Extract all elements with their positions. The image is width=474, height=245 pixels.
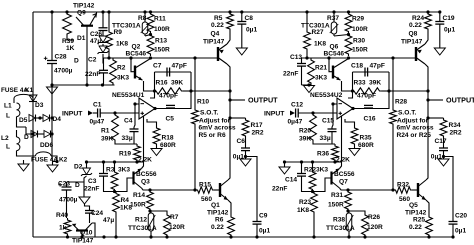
node zobel gnd (right ch) — [442, 155, 445, 158]
svg-text:C3: C3 — [88, 178, 97, 185]
transistor Q9 TIP142 — [76, 14, 97, 26]
node bottom rail R40 — [66, 235, 69, 238]
label Q4 — [211, 31, 220, 38]
label C23 value 4700u — [59, 197, 78, 204]
svg-text:C14: C14 — [285, 177, 297, 184]
node bottom rail Q10 — [80, 235, 83, 238]
svg-text:470pF: 470pF — [357, 93, 376, 100]
wire R24 to Q8 emitter (right ch) — [425, 31, 428, 44]
resistor R14 150R — [147, 190, 154, 211]
label 6mV across — [199, 124, 236, 131]
svg-text:L: L — [6, 144, 10, 151]
wire Q1 emitter to R6 — [228, 200, 231, 215]
svg-text:150R: 150R — [130, 202, 146, 209]
svg-text:S.O.T.: S.O.T. — [398, 110, 416, 117]
thermistor R12 TTC301A — [147, 211, 156, 233]
diode D6 — [44, 131, 51, 138]
label R29 (right ch) — [352, 16, 364, 23]
label C26 — [90, 31, 102, 38]
node op-amp minus — [133, 102, 136, 105]
wire R3 node to Q3 base — [115, 178, 134, 192]
wire Q9 base down to bias net — [86, 26, 88, 85]
svg-text:0µ1: 0µ1 — [444, 27, 455, 34]
label 0u1 of C9 — [259, 228, 270, 235]
input arrow (right ch) — [290, 111, 295, 116]
label R5 — [214, 15, 223, 22]
svg-text:C5: C5 — [166, 116, 175, 123]
label R16 — [156, 80, 168, 87]
wire C6 to ground — [245, 151, 247, 159]
svg-text:4700µ: 4700µ — [59, 197, 78, 204]
wire C4 bottom — [133, 132, 135, 144]
node fuse K2 out — [55, 160, 58, 163]
wire ground to C24 — [85, 204, 90, 211]
svg-text:R37: R37 — [327, 15, 339, 22]
wire C2 top stub — [103, 58, 105, 70]
node lower line R36 (right ch) — [333, 160, 336, 163]
svg-text:R1: R1 — [101, 128, 110, 135]
label R38 (right ch) — [333, 217, 345, 224]
label D below D1 — [74, 58, 79, 65]
svg-text:C9: C9 — [259, 213, 268, 220]
label C5 — [166, 116, 175, 123]
label R14 — [133, 192, 145, 199]
wire bottom -V rail — [33, 236, 452, 238]
label 0u1 of C17 (right ch) — [431, 153, 442, 160]
capacitor C9 0u1 — [253, 222, 262, 225]
svg-text:470pF: 470pF — [159, 93, 178, 100]
svg-text:D2: D2 — [74, 164, 83, 171]
wire C7 top path (right ch) — [353, 71, 390, 73]
wire R23 to bottom rail (right ch) — [313, 214, 315, 237]
label C23 — [58, 181, 70, 188]
svg-text:R19: R19 — [119, 151, 131, 158]
label L2 — [1, 135, 9, 142]
label TIP142 of Q1 — [207, 210, 229, 217]
svg-text:R40: R40 — [56, 212, 68, 219]
label OUTPUT (right ch) — [446, 95, 474, 104]
wire R38 to rail (right ch) — [348, 233, 350, 237]
svg-text:R26: R26 — [368, 214, 380, 221]
resistor R22 3K3 (right ch) — [309, 170, 316, 192]
wire bias vertical upper (right ch) — [392, 58, 394, 108]
wire C5 stub — [170, 108, 172, 109]
svg-text:120R: 120R — [367, 224, 383, 231]
wire R22 node to Q7 base (right ch) — [313, 178, 332, 192]
svg-text:Q4: Q4 — [211, 31, 220, 38]
svg-text:TIP142: TIP142 — [207, 210, 229, 217]
trimpot R10 S.O.T. — [192, 108, 199, 126]
node bias net stub — [85, 83, 88, 86]
svg-text:C15: C15 — [322, 118, 334, 125]
wire fuse K1 left to L1 — [13, 99, 15, 104]
label R19 — [119, 151, 131, 158]
svg-text:R36: R36 — [317, 151, 329, 158]
capacitor C14 22nF (right ch) — [297, 174, 306, 177]
diode D1 zener — [98, 36, 109, 44]
label 680R of R18 — [160, 142, 176, 149]
label 39K of R20 (right ch) — [299, 136, 311, 143]
capacitor C8 0u1 — [237, 22, 246, 25]
wire C17 to ground (right ch) — [443, 151, 445, 159]
wire Q7 emitter up (right ch) — [340, 162, 342, 169]
label 120R of R7 — [169, 224, 185, 231]
label Q5 (right ch) — [409, 202, 418, 209]
label 39K of R33 (right ch) — [369, 80, 381, 87]
resistor R17 2R2 — [242, 118, 249, 138]
label R39 value 1K — [66, 45, 75, 52]
wire C2 bottom — [103, 73, 105, 85]
label 22nF of C3 — [84, 186, 99, 193]
wire feedback left edge — [154, 72, 156, 91]
svg-text:Q8: Q8 — [409, 31, 418, 38]
svg-text:R30: R30 — [353, 38, 365, 45]
wire output rail mid — [229, 91, 231, 137]
svg-text:3K3: 3K3 — [118, 167, 130, 174]
svg-text:D3: D3 — [35, 102, 44, 109]
resistor R21 3K3 (right ch) — [308, 58, 315, 85]
capacitor C13 22nF (right ch) — [297, 64, 306, 67]
ground below R18 — [151, 149, 162, 156]
svg-text:C1: C1 — [93, 102, 102, 109]
node rail R8 — [143, 10, 146, 13]
resistor R31 150R (right ch) — [345, 190, 352, 211]
node feedback right mid — [189, 89, 192, 92]
wire Q6 emitter down (right ch) — [342, 81, 353, 91]
svg-text:D: D — [24, 134, 29, 141]
label 120R of R26 (right ch) — [367, 224, 383, 231]
label Q9 — [77, 10, 86, 17]
resistor R39 1K — [63, 12, 72, 36]
wire to OUTPUT — [230, 99, 245, 101]
label 22nF of C13 (right ch) — [283, 71, 298, 78]
wire R17 to C6 — [245, 138, 247, 148]
svg-text:BC546: BC546 — [126, 51, 147, 58]
label 680R of R35 (right ch) — [358, 142, 374, 149]
svg-text:BC556: BC556 — [136, 171, 157, 178]
label C3 — [88, 178, 97, 185]
resistor R23 1K8 (right ch) — [311, 192, 318, 215]
transistor Q4 TIP147 — [218, 44, 227, 64]
node rail R27 (right ch) — [305, 10, 308, 13]
label D2 — [74, 164, 83, 171]
wire R3 top stub — [114, 162, 116, 170]
svg-text:Q2: Q2 — [132, 44, 141, 51]
transistor Q1 TIP142 — [220, 180, 228, 200]
label C24 value 47u — [103, 217, 114, 224]
wire L2 bottom to fuse K2 — [17, 151, 36, 156]
wire C8 to ground — [241, 24, 243, 48]
wire C23 link to D2 chain — [67, 181, 85, 183]
svg-text:150R: 150R — [328, 202, 344, 209]
label R12 — [135, 217, 147, 224]
svg-text:R4: R4 — [121, 197, 130, 204]
ground below fuse K2 — [47, 165, 58, 172]
label Q8 (right ch) — [409, 31, 418, 38]
label R18 — [162, 135, 174, 142]
capacitor C15 33u (right ch) — [328, 129, 337, 132]
svg-text:R20: R20 — [299, 128, 311, 135]
label R10 — [197, 99, 209, 106]
wire C15 top (right ch) — [331, 127, 333, 129]
wire C16 stub (right ch) — [368, 108, 370, 109]
label C20 (right ch) — [455, 213, 467, 220]
node clamp (right ch) — [307, 83, 310, 86]
svg-text:0.22: 0.22 — [211, 224, 224, 231]
svg-text:100R: 100R — [154, 26, 170, 33]
svg-text:C24: C24 — [91, 210, 103, 217]
svg-text:47pF: 47pF — [172, 63, 187, 70]
transistor Q8 TIP147 (right ch) — [416, 44, 425, 64]
capacitor C3 22nF — [99, 174, 108, 177]
wire left edge vertical — [32, 12, 34, 237]
wire base line to Q4 — [104, 57, 219, 59]
node base line R27 (right ch) — [305, 56, 308, 59]
svg-text:Q10: Q10 — [80, 230, 93, 237]
transistor Q10 TIP147 — [73, 223, 93, 231]
label R1 — [101, 128, 110, 135]
label R31 (right ch) — [331, 192, 343, 199]
svg-text:22nF: 22nF — [272, 186, 287, 193]
svg-text:680R: 680R — [160, 142, 176, 149]
svg-text:TTC301A: TTC301A — [326, 225, 355, 232]
diode D5 — [29, 115, 36, 122]
wire op-amp output to feedback corner (right ch) — [353, 108, 389, 110]
label R4 — [121, 197, 130, 204]
capacitor C24 47u — [85, 211, 94, 214]
label BC546 of Q2 — [126, 51, 147, 58]
svg-text:33µ: 33µ — [122, 135, 133, 142]
wire collector node to bias line (right ch) — [348, 189, 393, 191]
wire C20 branch (right ch) — [444, 157, 454, 222]
label C18 (right ch) — [351, 63, 363, 70]
node R14 top — [148, 188, 151, 191]
wire Q1 collector to output rail — [228, 137, 230, 180]
node bias net C2 junction — [101, 83, 104, 86]
svg-text:22nF: 22nF — [85, 71, 100, 78]
resistor R33 39K feedback (right ch) — [353, 88, 382, 94]
node bottom rail R6 — [229, 235, 232, 238]
label 150R of R13 — [154, 47, 170, 54]
resistor R6 0.22 — [228, 215, 235, 237]
wire R20/C15 join (right ch) — [313, 142, 335, 144]
node bottom rail C24 leg — [102, 235, 105, 238]
label INPUT (right ch) — [264, 111, 285, 118]
label D right of C23 — [75, 182, 80, 189]
label NE5534 U1 — [112, 92, 145, 99]
node top rail / C28 branch — [50, 10, 53, 13]
wire C1 to op-amp plus — [100, 112, 139, 114]
label C9 — [259, 213, 268, 220]
wire C3 top stub — [103, 162, 105, 174]
label 6mV across (right ch) — [397, 124, 434, 131]
inductor L1 winding — [17, 103, 20, 117]
wire C7 top path — [155, 71, 192, 73]
svg-text:3K3: 3K3 — [117, 75, 129, 82]
svg-text:R5 or R6: R5 or R6 — [199, 132, 226, 139]
fuse K1 arc — [14, 94, 33, 98]
svg-text:39K: 39K — [369, 80, 381, 87]
wire op-amp output to feedback corner — [155, 108, 191, 110]
svg-text:TIP142: TIP142 — [405, 210, 427, 217]
svg-text:BC556: BC556 — [334, 171, 355, 178]
label R24 or R25 (right ch) — [397, 132, 432, 139]
wire bias vertical lower — [194, 126, 196, 190]
wire clamp node (right ch) — [302, 84, 312, 86]
svg-text:C13: C13 — [290, 54, 302, 61]
label R9 — [114, 29, 123, 36]
label 2.2K of R19 — [138, 157, 152, 164]
ground lower node (right ch) — [279, 167, 290, 174]
svg-text:INPUT: INPUT — [264, 111, 285, 118]
wire 0V node to channel bias net — [52, 84, 115, 86]
capacitor C1 0u47 — [98, 109, 101, 118]
svg-text:R34: R34 — [449, 122, 461, 129]
wire rail to R27 (right ch) — [306, 12, 308, 30]
wire K2 node to ground — [53, 162, 58, 166]
label BC546 of Q6 (right ch) — [324, 51, 345, 58]
resistor R32 560 (right ch) — [394, 187, 412, 193]
wire R22 top stub (right ch) — [312, 162, 314, 170]
wire R4 to bottom rail — [115, 214, 117, 237]
svg-text:1k: 1k — [59, 225, 67, 232]
label 2.2K of R36 (right ch) — [336, 157, 350, 164]
wire lower node line (right ch) — [285, 161, 342, 163]
svg-text:R23: R23 — [299, 199, 311, 206]
label 100R of R11 — [154, 26, 170, 33]
label C4 — [124, 118, 133, 125]
label R3 — [106, 167, 115, 174]
label 3K3 of R2 — [117, 75, 129, 82]
capacitor C20 0u1 (right ch) — [449, 222, 458, 225]
resistor R30 150R (right ch) — [345, 34, 352, 57]
wire op-amp minus stub (right ch) — [332, 104, 337, 127]
node base line R9 — [107, 56, 110, 59]
wire C26 to D1 — [102, 31, 104, 37]
svg-text:DD6: DD6 — [40, 142, 54, 149]
label R8 — [138, 15, 147, 22]
capacitor C18 47pF (right ch) — [365, 68, 368, 77]
node R3 bottom — [113, 190, 116, 193]
node op-amp output — [153, 107, 156, 110]
node lower line left (right ch) — [283, 160, 286, 163]
wire R39 to Q9 base diag — [67, 36, 74, 40]
wire bias vertical lower (right ch) — [392, 126, 394, 190]
wire Q4 collector to output rail — [227, 64, 230, 91]
svg-text:D: D — [75, 182, 80, 189]
resistor R5 0.22 — [227, 12, 234, 31]
resistor R13 150R — [147, 34, 154, 57]
capacitor C16 470pF (right ch) — [364, 105, 373, 108]
label 0u47 of C1 — [90, 119, 105, 126]
node rail R5 — [228, 10, 231, 13]
wire rail to C19 (right ch) — [439, 12, 441, 22]
label 150R of R31 (right ch) — [328, 202, 344, 209]
label C8 — [245, 15, 254, 22]
label R22 (right ch) — [304, 167, 316, 174]
svg-text:R13: R13 — [155, 38, 167, 45]
thermistor R37 TTC301A (right ch) — [330, 20, 339, 36]
diode D3 — [29, 95, 37, 102]
wire Q10 base to bottom rail — [81, 231, 83, 238]
svg-text:D5: D5 — [19, 117, 28, 124]
wire Q10 leg down — [92, 223, 95, 237]
node zobel tap — [228, 116, 231, 119]
label NE5534 U2 (right ch) — [310, 92, 343, 99]
label 47pF of C7 — [172, 63, 187, 70]
wire R37 bottom to junction (right ch) — [334, 35, 349, 37]
label 100R of R29 (right ch) — [352, 26, 368, 33]
svg-text:150R: 150R — [154, 47, 170, 54]
node input R20 tap (right ch) — [311, 111, 314, 114]
node R30 bottom (right ch) — [347, 56, 350, 59]
node bottom rail R23 (right ch) — [312, 235, 315, 238]
diode D2 zener — [81, 168, 92, 176]
transistor Q7 BC556 (right ch) — [332, 169, 340, 189]
label Adjust for — [199, 118, 231, 125]
wire C23 to R40 — [66, 191, 68, 219]
resistor R35 680R (right ch) — [351, 126, 358, 146]
resistor R36 2.2K (right ch) — [332, 144, 339, 162]
capacitor C26 47u — [99, 28, 108, 31]
wire C15 bottom (right ch) — [331, 132, 333, 144]
svg-text:D: D — [74, 58, 79, 65]
node feedback right mid (right ch) — [387, 89, 390, 92]
svg-text:FUSE 4A: FUSE 4A — [31, 157, 58, 164]
label R20 (right ch) — [299, 128, 311, 135]
label FUSE 4A K1 — [1, 87, 28, 94]
node bottom rail R25 (right ch) — [427, 235, 430, 238]
resistor R26 120R (right ch) — [362, 213, 369, 237]
wire R16 to right edge — [183, 90, 191, 92]
ground below R35 (right ch) — [349, 149, 360, 156]
svg-text:D4: D4 — [53, 116, 62, 123]
svg-text:R27: R27 — [312, 29, 324, 36]
wire bridge right rail — [51, 85, 53, 160]
wire rail to C8 — [241, 12, 243, 22]
label R6 — [215, 217, 224, 224]
svg-text:680R: 680R — [358, 142, 374, 149]
label OUTPUT — [248, 95, 278, 104]
label R33 (right ch) — [354, 80, 366, 87]
wire R32 to Q5 base (right ch) — [412, 189, 418, 191]
label 3K3 of R22 (right ch) — [316, 167, 328, 174]
resistor R19 2.2K — [134, 144, 141, 162]
wire rail to C26 — [102, 12, 104, 28]
svg-text:TTC301A: TTC301A — [128, 225, 157, 232]
svg-text:R39: R39 — [62, 38, 74, 45]
capacitor C19 0u1 (right ch) — [435, 22, 444, 25]
wire R31 to R26 (right ch) — [348, 211, 365, 213]
wire R33 to right edge (right ch) — [381, 90, 389, 92]
svg-text:C8: C8 — [245, 15, 254, 22]
wire bridge row1 — [36, 117, 43, 119]
svg-text:0.22: 0.22 — [211, 22, 224, 29]
wire R1/C4 join — [115, 142, 137, 144]
svg-text:R25: R25 — [413, 217, 425, 224]
wire Q9 emitter to rail — [96, 12, 98, 14]
label Q1 — [211, 202, 220, 209]
label C16 (right ch) — [364, 116, 376, 123]
node zobel tap (right ch) — [426, 116, 429, 119]
wire op-amp minus stub — [134, 104, 139, 127]
node rail C26 chain — [101, 10, 104, 13]
label K1 — [25, 87, 34, 94]
wire to OUTPUT (right ch) — [428, 99, 443, 101]
svg-text:0.22: 0.22 — [409, 224, 422, 231]
svg-text:R12: R12 — [135, 217, 147, 224]
wire Q5 collector to output rail (right ch) — [426, 137, 428, 180]
